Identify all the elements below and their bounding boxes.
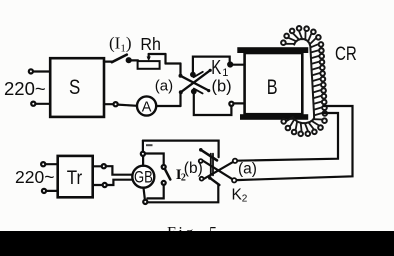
svg-text:(a): (a): [155, 78, 173, 95]
svg-text:2: 2: [242, 194, 248, 205]
svg-text:220~: 220~: [4, 78, 46, 99]
svg-text:(a): (a): [238, 161, 257, 178]
svg-text:CR: CR: [335, 43, 357, 65]
svg-text:Rh: Rh: [140, 34, 161, 54]
svg-text:K: K: [211, 57, 221, 79]
svg-text:(b): (b): [184, 160, 203, 177]
svg-text:GB: GB: [134, 169, 153, 187]
svg-text:S: S: [69, 76, 80, 99]
svg-text:A: A: [142, 99, 152, 115]
svg-text:(I1): (I1): [109, 34, 132, 55]
svg-text:220~: 220~: [15, 167, 54, 187]
svg-text:Tr: Tr: [67, 167, 83, 189]
svg-text:B: B: [267, 75, 278, 99]
svg-text:(b): (b): [212, 77, 232, 95]
